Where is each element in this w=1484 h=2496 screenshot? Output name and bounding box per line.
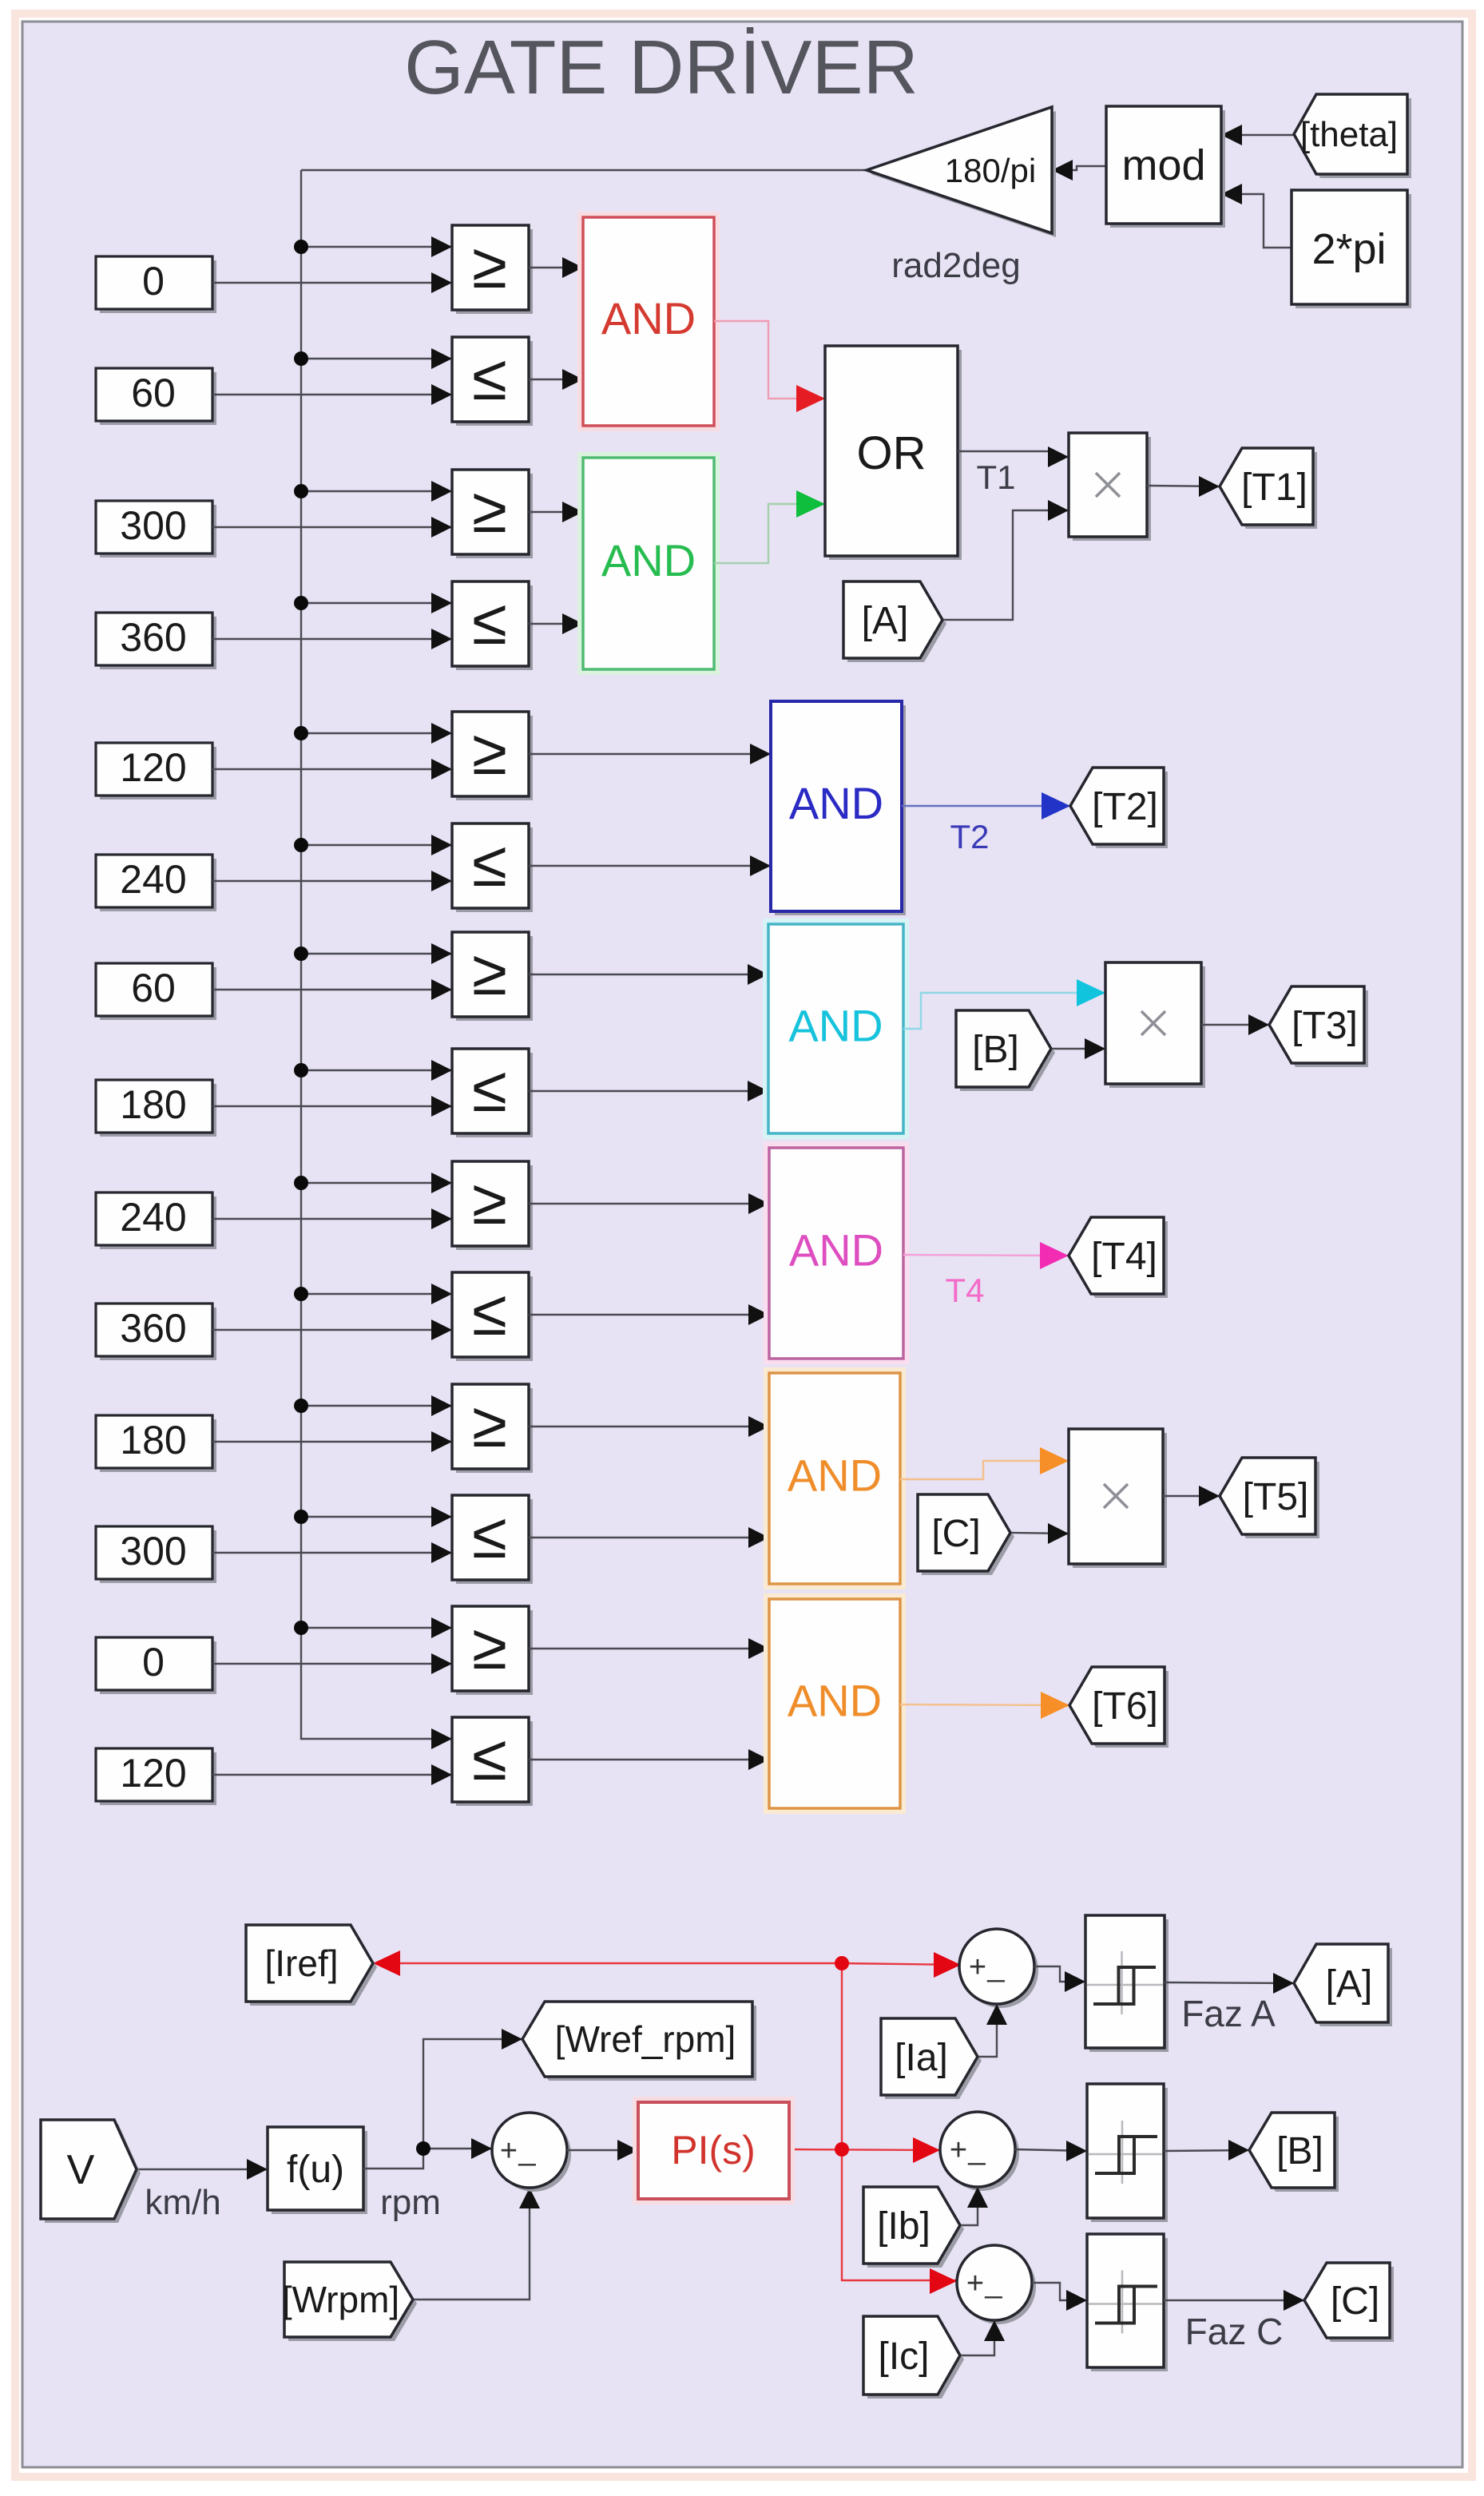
svg-text:_: _ xyxy=(986,1950,1005,1983)
svg-text:[T3]: [T3] xyxy=(1292,1005,1358,1047)
svg-text:GATE DRİVER: GATE DRİVER xyxy=(404,25,919,110)
svg-text:300: 300 xyxy=(120,503,186,548)
svg-text:AND: AND xyxy=(788,1001,883,1051)
svg-text:f(u): f(u) xyxy=(287,2149,344,2191)
svg-text:rad2deg: rad2deg xyxy=(891,246,1020,285)
svg-text:V: V xyxy=(67,2147,95,2193)
svg-text:OR: OR xyxy=(857,427,927,479)
svg-text:AND: AND xyxy=(789,1225,883,1276)
svg-text:T4: T4 xyxy=(945,1272,984,1309)
svg-text:[Wrpm]: [Wrpm] xyxy=(282,2279,399,2320)
svg-text:_: _ xyxy=(967,2133,986,2166)
svg-text:≥: ≥ xyxy=(472,1389,507,1460)
svg-text:[B]: [B] xyxy=(972,1029,1019,1071)
svg-text:120: 120 xyxy=(120,745,186,790)
svg-text:≤: ≤ xyxy=(472,1722,507,1793)
svg-text:≥: ≥ xyxy=(472,937,507,1008)
svg-text:+: + xyxy=(969,1950,986,1984)
svg-text:Faz A: Faz A xyxy=(1181,1993,1276,2034)
svg-text:[T1]: [T1] xyxy=(1241,466,1307,509)
svg-text:≤: ≤ xyxy=(472,1054,507,1125)
svg-text:240: 240 xyxy=(120,1195,186,1240)
svg-text:rpm: rpm xyxy=(380,2183,441,2222)
svg-text:Faz C: Faz C xyxy=(1185,2311,1284,2352)
svg-text:[Wref_rpm]: [Wref_rpm] xyxy=(555,2018,736,2060)
svg-text:300: 300 xyxy=(120,1529,186,1573)
svg-text:AND: AND xyxy=(789,778,883,828)
svg-text:T1: T1 xyxy=(976,458,1015,496)
svg-text:mod: mod xyxy=(1121,141,1205,189)
svg-text:T2: T2 xyxy=(950,818,989,855)
svg-text:≥: ≥ xyxy=(472,1166,507,1237)
svg-text:[T4]: [T4] xyxy=(1091,1236,1157,1278)
svg-text:≤: ≤ xyxy=(472,828,507,899)
svg-text:60: 60 xyxy=(131,966,176,1010)
svg-text:[C]: [C] xyxy=(931,1513,980,1555)
svg-text:≤: ≤ xyxy=(472,1500,507,1571)
svg-text:180/pi: 180/pi xyxy=(945,152,1036,189)
svg-text:_: _ xyxy=(518,2133,536,2167)
svg-text:_: _ xyxy=(984,2266,1002,2300)
svg-text:[T5]: [T5] xyxy=(1243,1476,1309,1518)
svg-text:+: + xyxy=(500,2134,518,2168)
svg-text:2*pi: 2*pi xyxy=(1311,225,1386,273)
svg-text:360: 360 xyxy=(120,1306,186,1351)
svg-text:240: 240 xyxy=(120,857,186,902)
svg-text:+: + xyxy=(966,2267,984,2300)
svg-text:[A]: [A] xyxy=(862,600,909,642)
svg-text:[Iref]: [Iref] xyxy=(264,1942,338,1984)
svg-text:AND: AND xyxy=(601,293,696,343)
svg-text:≤: ≤ xyxy=(472,342,507,413)
svg-text:≥: ≥ xyxy=(472,716,507,788)
svg-text:≤: ≤ xyxy=(472,586,507,657)
svg-text:[Ib]: [Ib] xyxy=(877,2205,930,2248)
svg-text:[theta]: [theta] xyxy=(1300,115,1398,154)
svg-text:[T6]: [T6] xyxy=(1092,1685,1158,1728)
svg-text:0: 0 xyxy=(142,1640,165,1685)
svg-text:AND: AND xyxy=(788,1676,882,1726)
svg-text:[C]: [C] xyxy=(1331,2280,1379,2323)
svg-text:[T2]: [T2] xyxy=(1092,786,1158,828)
svg-text:360: 360 xyxy=(120,615,186,660)
svg-text:180: 180 xyxy=(120,1082,186,1127)
svg-text:AND: AND xyxy=(601,535,696,585)
svg-text:+: + xyxy=(950,2133,967,2167)
svg-text:180: 180 xyxy=(120,1418,186,1462)
svg-text:[Ia]: [Ia] xyxy=(895,2037,948,2079)
svg-text:60: 60 xyxy=(131,371,176,415)
svg-text:km/h: km/h xyxy=(145,2183,220,2222)
svg-text:120: 120 xyxy=(120,1751,186,1796)
svg-text:≤: ≤ xyxy=(472,1277,507,1348)
svg-text:[Ic]: [Ic] xyxy=(878,2335,929,2378)
svg-text:0: 0 xyxy=(142,259,165,304)
svg-text:≥: ≥ xyxy=(472,230,507,301)
svg-text:[B]: [B] xyxy=(1276,2130,1323,2173)
svg-text:[A]: [A] xyxy=(1326,1963,1373,2006)
svg-text:AND: AND xyxy=(788,1450,882,1501)
svg-text:≥: ≥ xyxy=(472,474,507,546)
svg-text:PI(s): PI(s) xyxy=(671,2128,756,2173)
svg-text:≥: ≥ xyxy=(472,1611,507,1682)
